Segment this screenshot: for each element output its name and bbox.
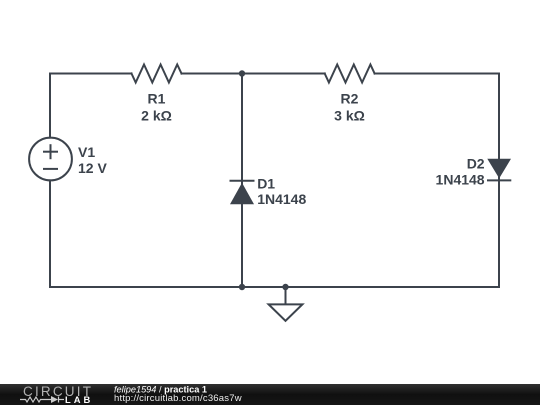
wire top-right segment <box>375 73 499 75</box>
wire middle vertical <box>241 74 243 288</box>
logo schematic line <box>20 397 64 403</box>
diode D2 <box>487 159 511 179</box>
wire right vertical <box>498 74 500 288</box>
svg-text:LAB: LAB <box>65 394 93 405</box>
wire left vertical upper <box>49 74 51 138</box>
svg-text:D2: D2 <box>467 156 485 172</box>
svg-text:R2: R2 <box>341 91 359 107</box>
wire left vertical lower <box>49 180 51 287</box>
svg-text:D1: D1 <box>257 175 275 191</box>
ground <box>285 287 287 304</box>
svg-text:http://circuitlab.com/c36as7w: http://circuitlab.com/c36as7w <box>114 393 242 404</box>
svg-text:12 V: 12 V <box>78 160 107 176</box>
wire top-middle segment <box>182 73 325 75</box>
resistor R1 <box>132 65 182 83</box>
svg-text:1N4148: 1N4148 <box>257 191 306 207</box>
wire top-left segment <box>50 73 132 75</box>
node A junction dot top of D1 <box>239 70 245 76</box>
svg-text:3 kΩ: 3 kΩ <box>334 107 365 123</box>
wire bottom <box>50 286 499 288</box>
logo diode triangle <box>51 396 58 403</box>
svg-text:1N4148: 1N4148 <box>436 172 485 188</box>
resistor R2 <box>325 65 375 83</box>
node B junction dot bottom of D1 <box>239 284 245 290</box>
footer bar <box>0 384 540 405</box>
svg-text:V1: V1 <box>78 144 95 160</box>
svg-text:R1: R1 <box>148 91 166 107</box>
diode D1 <box>231 180 254 182</box>
svg-text:2 kΩ: 2 kΩ <box>141 107 172 123</box>
node ground junction dot <box>282 284 288 290</box>
voltage source V1 <box>29 138 72 181</box>
